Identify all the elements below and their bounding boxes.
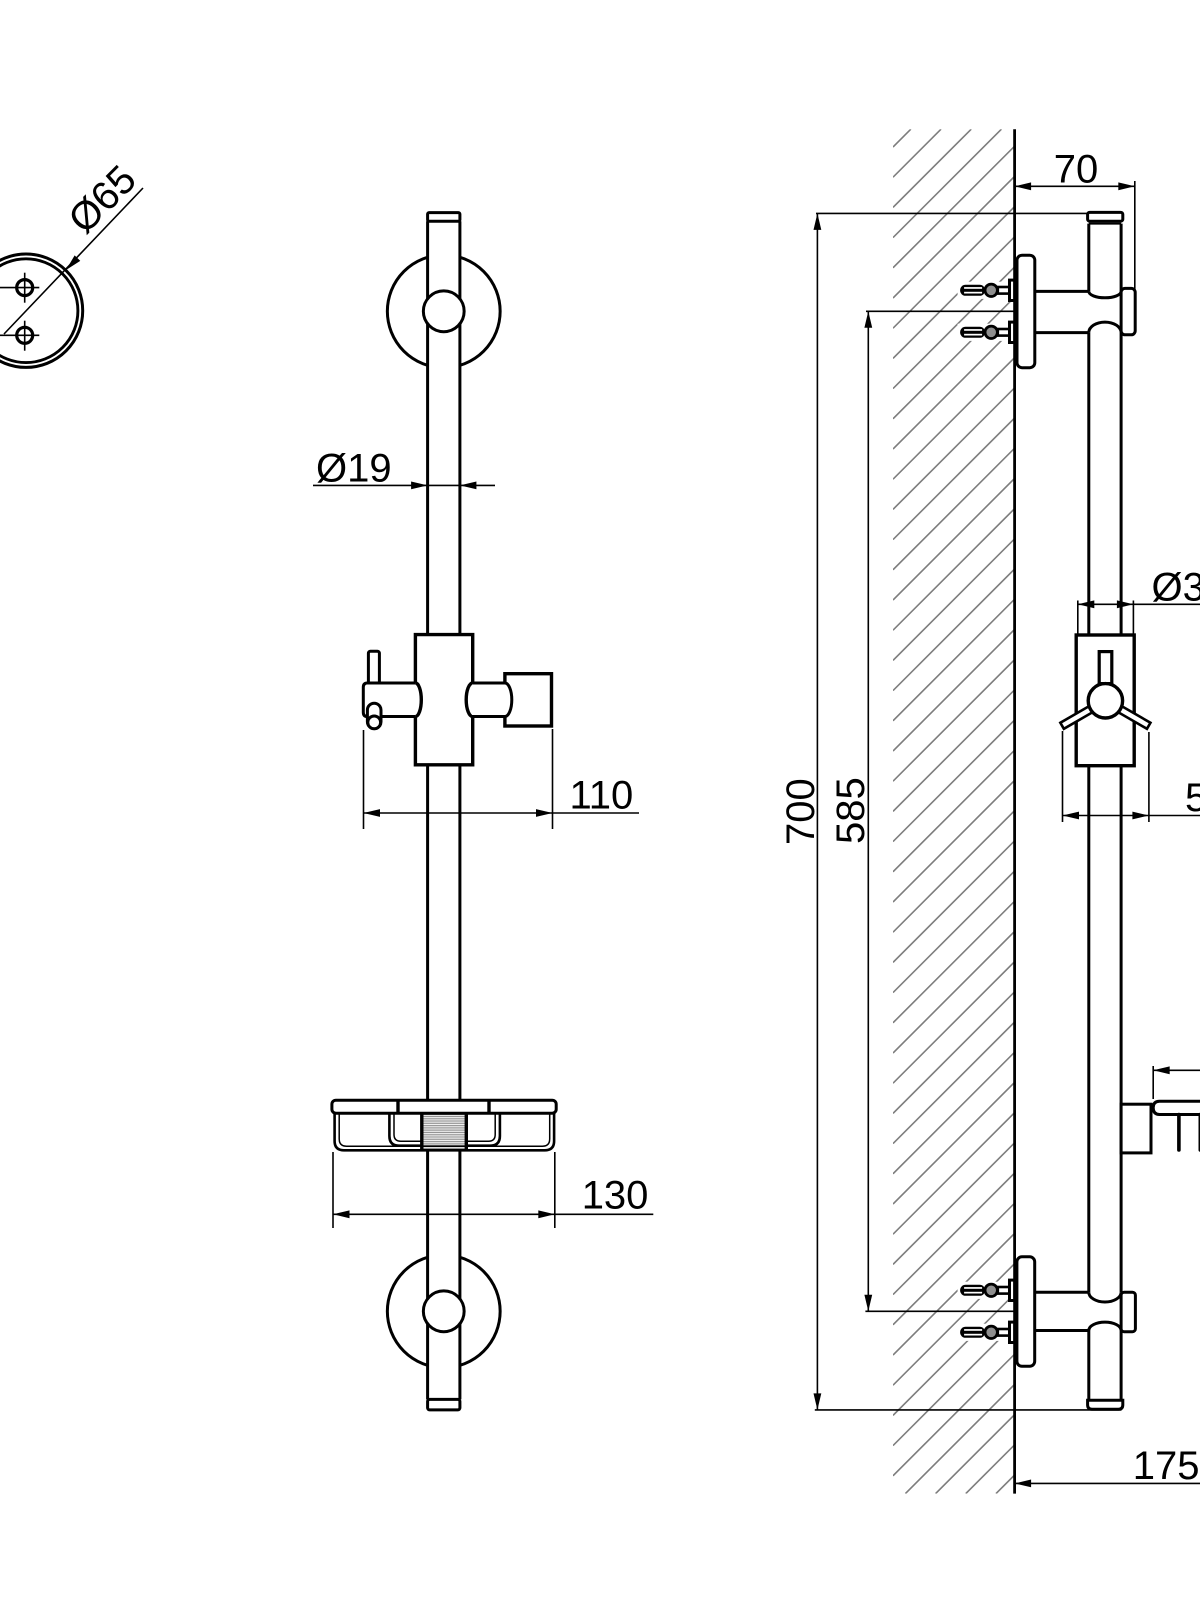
- right arm (front): [472, 683, 512, 717]
- dimension 130: [332, 1152, 334, 1228]
- svg-text:130: 130: [582, 1174, 649, 1218]
- screw hole lower: [17, 327, 33, 343]
- svg-text:70: 70: [1054, 148, 1099, 192]
- wall-plate detail circle (O65): [0, 254, 83, 367]
- slider knob ball (side): [1088, 684, 1122, 718]
- screw hole upper: [17, 280, 33, 296]
- top mount circle (front): [387, 255, 500, 368]
- soap dish top plate (front): [332, 1100, 556, 1113]
- dimension 50 (levers): [1062, 731, 1064, 822]
- soap dish plate (side): [1153, 1101, 1200, 1114]
- svg-text:50: 50: [1185, 776, 1200, 820]
- bottom mount circle (front): [387, 1255, 500, 1368]
- dimension soap dish offset: [1152, 1066, 1154, 1099]
- dimension 70: [1134, 181, 1136, 291]
- bottom wall plate (side): [1017, 1257, 1035, 1367]
- leader line O65: [4, 188, 143, 334]
- soap dish body (front): [335, 1113, 554, 1150]
- soap dish clamp block (side): [1121, 1104, 1151, 1153]
- holder cup (front): [505, 674, 552, 726]
- side rail tube: [1087, 224, 1090, 292]
- dimension 585 (vertical): [867, 311, 869, 1311]
- svg-text:175: 175: [1133, 1444, 1200, 1488]
- pull knob ring: [368, 716, 381, 729]
- top mount collar (side): [1121, 288, 1135, 334]
- svg-text:700: 700: [779, 778, 823, 845]
- top wall plate (side): [1017, 255, 1035, 368]
- svg-text:110: 110: [570, 773, 634, 817]
- svg-text:Ø32: Ø32: [1152, 565, 1200, 609]
- bottom mount collar circle: [423, 1291, 464, 1332]
- rail top cap (front): [428, 213, 460, 222]
- wall hatching: [893, 129, 1015, 1493]
- bottom mount arm (side): [1035, 1292, 1121, 1302]
- slider knob pin (side): [1099, 652, 1112, 684]
- screws top mount: [958, 280, 1016, 300]
- slider (side view): [1076, 635, 1134, 766]
- lock pin (front): [368, 651, 379, 684]
- pull knob capsule: [367, 703, 381, 728]
- dimension 700 (vertical): [816, 213, 818, 1410]
- dimension 175: [1015, 1482, 1200, 1484]
- side rail top cap: [1088, 212, 1123, 221]
- dimension O19: [313, 484, 495, 486]
- svg-text:Ø19: Ø19: [316, 447, 392, 491]
- dimension O32 (slider): [1077, 601, 1079, 635]
- top mount collar circle: [423, 291, 464, 332]
- soap dish basket rims (front): [389, 1113, 500, 1146]
- soap dish clamp block (front, striped): [422, 1113, 467, 1150]
- wall face line: [1013, 129, 1016, 1493]
- slider lever left (side): [1060, 705, 1095, 729]
- slider lever right (side): [1115, 705, 1150, 729]
- bottom mount collar (side): [1121, 1292, 1135, 1332]
- dimension 110: [363, 730, 365, 829]
- soap dish pins (side): [1177, 1115, 1181, 1151]
- side rail bottom cap: [1088, 1400, 1123, 1409]
- screws bottom mount: [958, 1280, 1016, 1300]
- rail (front): [428, 213, 460, 1410]
- left arm (front): [363, 683, 415, 717]
- svg-text:585: 585: [829, 777, 873, 844]
- slider body (front): [415, 635, 472, 765]
- rail bottom cap (front): [428, 1399, 460, 1410]
- plate dividers: [396, 1100, 399, 1113]
- top mount arm (side): [1035, 291, 1121, 297]
- extension lines 700/585: [816, 212, 1088, 214]
